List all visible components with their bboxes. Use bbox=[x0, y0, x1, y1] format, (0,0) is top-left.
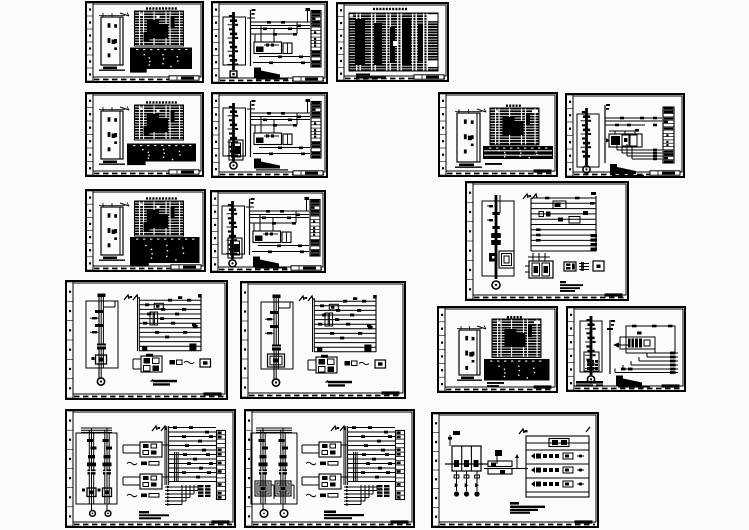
breaker contacts bbox=[103, 439, 113, 466]
table header text bbox=[507, 316, 522, 318]
control cabinet elevation bbox=[457, 326, 486, 376]
meter box bbox=[489, 253, 498, 262]
caption lines bbox=[487, 382, 504, 387]
feeder compartment box bbox=[222, 206, 245, 254]
inner drawing frame bbox=[73, 283, 225, 394]
control wire bbox=[251, 119, 310, 121]
spare contact dashes bbox=[579, 262, 589, 271]
feeder triple line bbox=[89, 428, 93, 510]
bottom dashed margin line bbox=[574, 174, 681, 176]
relay logic box bbox=[253, 231, 281, 243]
wire terminal lugs bbox=[263, 112, 305, 155]
inner drawing frame bbox=[344, 5, 446, 76]
mid vertical bundle bbox=[175, 452, 179, 482]
thermal unit box bbox=[82, 488, 96, 497]
breaker contacts bbox=[279, 439, 289, 466]
control wire bbox=[251, 21, 310, 23]
control cabinet elevation bbox=[99, 13, 129, 66]
control wire bbox=[251, 33, 297, 35]
cabinet base plinth bbox=[455, 164, 482, 168]
left margin fold-mark strip bbox=[439, 308, 445, 391]
control wire bbox=[253, 153, 310, 155]
control wire bbox=[250, 214, 309, 216]
sheet border frame bbox=[566, 94, 684, 177]
table header text bbox=[146, 7, 177, 9]
wire stub marks bbox=[246, 198, 255, 207]
device schedule table bbox=[490, 108, 539, 145]
left margin fold-mark strip bbox=[213, 3, 219, 82]
left margin fold-mark strip bbox=[467, 183, 473, 299]
incoming bus lines bbox=[81, 428, 112, 432]
relay block mass bbox=[628, 339, 650, 348]
sheet 12: feeder control schematic bbox=[241, 282, 405, 398]
inner drawing frame bbox=[93, 95, 201, 171]
meter sub-box on feeder bbox=[229, 140, 243, 160]
junction drop wires bbox=[255, 113, 297, 133]
sheet 6: cabinet + schedule tables bbox=[439, 93, 557, 176]
breaker contacts bbox=[87, 439, 97, 466]
wire stub marks bbox=[247, 100, 256, 109]
wire entry arrows bbox=[523, 194, 537, 199]
feeder compartment box bbox=[580, 321, 602, 372]
bottom dashed margin line bbox=[447, 173, 554, 175]
relay group row 1 bbox=[531, 453, 584, 459]
inner drawing frame bbox=[248, 284, 403, 393]
control wire bbox=[251, 116, 310, 118]
inner meter sub-box bbox=[584, 352, 599, 371]
title block bbox=[171, 265, 201, 269]
device schedule table bbox=[135, 11, 184, 46]
bottom dashed margin line bbox=[94, 173, 200, 175]
caption underline bbox=[611, 172, 635, 174]
contact block striped bbox=[103, 470, 111, 475]
contact block striped bbox=[259, 470, 267, 475]
sheet 16: twin motor starter schematic bbox=[245, 410, 414, 527]
ladder left rail bundle bbox=[344, 426, 348, 485]
meter sub-box on feeder bbox=[228, 238, 242, 258]
arrow contact symbol bbox=[613, 342, 628, 347]
auxiliary contact box bbox=[283, 134, 292, 145]
CT nested rings on feeder bbox=[268, 354, 285, 367]
feeder tap wire bbox=[278, 302, 290, 308]
incoming bus lines bbox=[256, 428, 292, 432]
ladder rungs bbox=[139, 294, 202, 351]
motor circle symbol bbox=[583, 166, 590, 173]
feeder devices bbox=[90, 310, 106, 350]
inner drawing frame bbox=[439, 415, 596, 522]
cable schedule table bbox=[349, 13, 438, 71]
riser wire bbox=[250, 10, 252, 66]
feeder enclosure box bbox=[76, 433, 117, 504]
wire terminal lugs bbox=[263, 21, 305, 64]
notes text block bbox=[510, 502, 545, 514]
left margin fold-mark strip bbox=[567, 95, 573, 176]
bottom dashed margin line bbox=[94, 79, 200, 81]
motor circle symbol bbox=[229, 260, 236, 267]
feeder triple line bbox=[105, 428, 109, 510]
control wire bbox=[251, 124, 297, 126]
title block bbox=[605, 293, 623, 296]
aux boxes bbox=[345, 361, 370, 366]
left margin fold-mark strip bbox=[87, 3, 93, 81]
feeder enclosure box bbox=[251, 433, 297, 504]
control wire bbox=[258, 245, 309, 247]
inner drawing frame bbox=[219, 95, 325, 172]
sheet 5: control schematic with terminal strip bbox=[212, 93, 327, 177]
feeder cap bar bbox=[273, 295, 281, 299]
thermal unit box bbox=[255, 481, 274, 499]
contact block striped bbox=[279, 470, 287, 475]
motor circle bbox=[97, 378, 104, 385]
control wire bbox=[259, 147, 310, 149]
notes text lines bbox=[325, 380, 352, 387]
sheet border frame bbox=[241, 282, 405, 398]
relay coil grid bbox=[133, 354, 162, 372]
transformer bank cluster bbox=[525, 253, 553, 278]
control cabinet elevation bbox=[99, 203, 129, 256]
relay group row 3 bbox=[531, 481, 584, 487]
control wire bbox=[251, 28, 310, 30]
rung lugs bbox=[173, 426, 213, 478]
stepped output wires bbox=[165, 485, 202, 506]
control wire bbox=[252, 251, 309, 253]
inner drawing frame bbox=[73, 412, 233, 522]
inner drawing frame bbox=[218, 193, 323, 267]
breaker contacts bbox=[259, 439, 269, 466]
wire entry arrows bbox=[299, 296, 313, 301]
sheet border frame bbox=[438, 307, 557, 392]
motor circle bbox=[90, 511, 96, 517]
feeder compartment box bbox=[482, 201, 514, 276]
motor circle bbox=[260, 510, 268, 518]
transformer bank (3 cells) bbox=[445, 446, 488, 471]
wiring schedule (filled) bbox=[484, 359, 550, 381]
left margin fold-mark strip bbox=[87, 191, 93, 270]
terminal grid box bbox=[564, 262, 576, 271]
sheet 14: motor control schematic bbox=[567, 307, 685, 391]
bottom dashed margin line bbox=[345, 78, 445, 80]
device schedule table bbox=[135, 201, 184, 236]
motor circle bbox=[272, 379, 279, 386]
wire entry arrows bbox=[124, 295, 138, 300]
relay logic box bbox=[254, 42, 282, 54]
sheet border frame bbox=[337, 3, 448, 81]
notes text lines bbox=[139, 511, 169, 519]
feeder devices bbox=[265, 311, 281, 351]
step wires to bottom right bbox=[615, 349, 678, 374]
indicator box bbox=[200, 359, 211, 367]
aux contact row bbox=[306, 462, 338, 466]
contact matrix block bbox=[377, 485, 390, 497]
notes text bbox=[253, 257, 287, 269]
terminal strip bbox=[663, 107, 674, 163]
inner drawing frame bbox=[252, 412, 412, 522]
control wire bbox=[250, 210, 309, 212]
table header text bbox=[146, 101, 177, 103]
left margin fold-mark strip bbox=[87, 94, 93, 175]
auxiliary contact box bbox=[283, 43, 292, 54]
wire entry arrows bbox=[152, 426, 166, 431]
device schedule table bbox=[492, 319, 541, 358]
control cluster box bbox=[123, 474, 169, 489]
title block bbox=[391, 520, 409, 523]
step-down wires to strip bbox=[617, 138, 662, 160]
riser stub marks bbox=[607, 320, 615, 330]
sheet border frame bbox=[66, 410, 235, 527]
stepped output wires bbox=[344, 485, 381, 506]
wiring schedule (filled) bbox=[127, 144, 196, 166]
sheet border frame bbox=[86, 93, 203, 176]
contact matrix block bbox=[198, 485, 211, 497]
mid vertical bundle bbox=[354, 452, 358, 482]
bottom dashed margin line bbox=[74, 524, 232, 526]
left margin fold-mark strip bbox=[440, 94, 446, 175]
title block bbox=[293, 77, 323, 81]
title block bbox=[662, 384, 680, 387]
relay group row 2 bbox=[531, 467, 584, 473]
table header text bbox=[506, 105, 521, 107]
notes text bbox=[254, 68, 288, 80]
feeder tap wire bbox=[103, 301, 115, 307]
aux contact row bbox=[127, 462, 159, 466]
thermal unit box bbox=[98, 488, 112, 497]
left margin fold-mark strip bbox=[433, 414, 439, 526]
cabinet base plinth bbox=[99, 257, 125, 261]
sheet border frame bbox=[466, 182, 628, 300]
inner drawing frame bbox=[445, 309, 555, 387]
left margin fold-mark strip bbox=[212, 192, 218, 271]
ladder rungs bbox=[531, 198, 596, 251]
secondary drops with fuse marks bbox=[454, 471, 480, 497]
wire stub marks bbox=[247, 9, 256, 18]
feeder compartment box bbox=[577, 114, 599, 167]
bottom dashed margin line bbox=[220, 174, 324, 176]
bottom dashed margin line bbox=[220, 80, 324, 82]
device schedule table bbox=[135, 105, 184, 140]
thermal unit box bbox=[275, 481, 294, 499]
terminal bus strip bbox=[396, 431, 405, 500]
title block bbox=[534, 169, 552, 172]
bottom dashed margin line bbox=[249, 395, 402, 397]
control cluster box bbox=[302, 442, 348, 457]
cabinet base plinth bbox=[99, 67, 125, 71]
left margin fold-mark strip bbox=[67, 282, 73, 398]
title block bbox=[575, 520, 593, 523]
riser wire bbox=[250, 101, 252, 157]
left margin fold-mark strip bbox=[67, 411, 73, 526]
ladder rungs bbox=[348, 428, 395, 482]
control wire bbox=[251, 25, 310, 27]
bottom dashed margin line bbox=[74, 396, 224, 398]
terminal strip bbox=[311, 11, 321, 68]
bottom dashed margin line bbox=[94, 268, 202, 270]
wire terminal lugs bbox=[262, 210, 304, 253]
contactor coil cluster bbox=[606, 131, 642, 147]
notes text bbox=[616, 376, 650, 388]
aux contact row bbox=[306, 494, 338, 498]
auxiliary contact box bbox=[282, 232, 291, 243]
ladder internal rows bbox=[526, 439, 589, 493]
sheet 3: cable schedule table bbox=[337, 3, 448, 82]
ladder rail left bbox=[530, 198, 532, 251]
vertical feeder busbar bbox=[581, 108, 592, 165]
motor circle bbox=[105, 511, 111, 517]
left margin fold-mark strip bbox=[568, 308, 574, 390]
sheet border frame bbox=[439, 93, 557, 176]
title block bbox=[291, 266, 321, 270]
feeder wire bundle bbox=[274, 295, 278, 379]
title block bbox=[293, 171, 323, 175]
sheet border frame bbox=[212, 93, 327, 177]
rung lugs bbox=[352, 426, 392, 478]
ladder rungs bbox=[169, 428, 216, 482]
notes text lines bbox=[324, 511, 364, 520]
busbar components bbox=[487, 205, 501, 245]
incoming marks bbox=[448, 435, 452, 446]
vertical feeder busbar bbox=[228, 12, 239, 70]
legend text lines bbox=[356, 74, 386, 82]
notes text bbox=[254, 159, 288, 171]
feeder wire bundle bbox=[99, 294, 103, 378]
left margin fold-mark strip bbox=[242, 283, 248, 397]
cabinet base plinth bbox=[457, 377, 482, 381]
sheet 8: power cabinet layout + device schedule bbox=[86, 190, 205, 271]
wire entry arrows bbox=[331, 426, 345, 431]
control loop outer box bbox=[626, 326, 675, 353]
striped meter element bbox=[587, 360, 598, 370]
inner drawing frame bbox=[93, 192, 203, 266]
motor circle bbox=[280, 510, 288, 518]
meter box on feeder bbox=[92, 355, 107, 364]
sheet 2: control schematic with terminal strip bbox=[212, 2, 327, 83]
sheet border frame bbox=[212, 2, 327, 83]
sheet 7: motor control schematic bbox=[566, 94, 684, 177]
title block bbox=[169, 170, 199, 174]
left margin fold-mark strip bbox=[246, 411, 252, 526]
sheet border frame bbox=[245, 410, 414, 527]
sheet border frame bbox=[66, 281, 227, 399]
sheet 9: control schematic with terminal strip bbox=[211, 191, 325, 272]
control cluster box bbox=[123, 442, 169, 457]
sheet border frame bbox=[86, 2, 203, 82]
feeder busbar bbox=[495, 195, 500, 279]
left margin fold-mark strip bbox=[213, 94, 219, 176]
notes text lines bbox=[560, 281, 583, 292]
feeder end termination bbox=[230, 71, 237, 77]
sheet border frame bbox=[211, 191, 325, 272]
relay cluster inner box bbox=[620, 337, 655, 349]
sheet 15: twin motor starter schematic bbox=[66, 410, 235, 527]
vertical feeder busbar bbox=[228, 103, 239, 161]
inner drawing frame bbox=[473, 184, 626, 295]
bottom dashed margin line bbox=[474, 297, 625, 299]
feeder compartment box bbox=[86, 301, 118, 368]
sheet border frame bbox=[567, 307, 685, 391]
bottom dashed margin line bbox=[446, 389, 554, 391]
feeder triple line bbox=[281, 428, 285, 510]
ladder rail right bbox=[595, 196, 597, 251]
caption line bbox=[485, 163, 502, 165]
title block bbox=[382, 391, 400, 394]
control wire bbox=[251, 112, 310, 114]
vertical feeder busbar bbox=[227, 201, 238, 259]
ladder left rail bundle bbox=[165, 426, 169, 485]
bottom-left text block bbox=[576, 381, 603, 387]
protection ladder box bbox=[526, 436, 589, 497]
sheet 13: cabinet + schedule tables bbox=[438, 307, 557, 392]
left margin fold-mark strip bbox=[338, 4, 344, 80]
bottom dashed margin line bbox=[575, 388, 682, 390]
control wire bbox=[259, 56, 310, 58]
control wire bbox=[250, 217, 309, 219]
wiring schedule (striped) bbox=[483, 146, 553, 159]
sheet 1: power cabinet layout + device schedule bbox=[86, 2, 203, 82]
sheet title text bbox=[373, 8, 407, 10]
ladder rail left bbox=[138, 297, 140, 351]
cabinet base plinth bbox=[99, 161, 125, 165]
aux boxes bbox=[170, 360, 195, 365]
relay coil grid bbox=[308, 355, 337, 373]
PT cluster bbox=[484, 450, 528, 474]
current transformer nested rings bbox=[499, 251, 514, 268]
right riser with lug bbox=[306, 99, 311, 113]
title block bbox=[414, 75, 444, 79]
title block bbox=[204, 392, 222, 395]
sheet border frame bbox=[432, 413, 598, 527]
feeder triple line bbox=[261, 428, 265, 510]
bottom dashed margin line bbox=[440, 524, 595, 526]
relay components on rungs bbox=[142, 296, 198, 350]
riser wire bbox=[609, 320, 611, 374]
wiring schedule (filled) bbox=[130, 237, 200, 267]
bottom dashed margin line bbox=[253, 524, 411, 526]
terminal strip bbox=[311, 102, 321, 159]
incoming label bbox=[453, 431, 460, 435]
title block bbox=[534, 385, 552, 388]
bottom dashed margin line bbox=[219, 269, 322, 271]
entry arrow marks bbox=[519, 427, 590, 434]
wiring schedule (filled) bbox=[130, 48, 192, 73]
notes text bbox=[610, 164, 644, 176]
sheet 11: feeder control schematic bbox=[66, 281, 227, 399]
relay logic box bbox=[254, 133, 282, 145]
inner drawing frame bbox=[573, 96, 682, 172]
ladder rungs bbox=[314, 295, 377, 352]
control cluster box bbox=[302, 474, 348, 489]
upper control wires bbox=[605, 118, 662, 125]
motor circle bbox=[492, 281, 500, 289]
wire terminal lugs bbox=[615, 117, 657, 132]
control wire bbox=[250, 222, 296, 224]
motor circle symbol bbox=[587, 376, 594, 383]
right riser with lug bbox=[306, 8, 311, 22]
sheet 17: transformer substation schematic bbox=[432, 413, 598, 527]
control cabinet elevation bbox=[455, 109, 486, 163]
title block bbox=[169, 76, 199, 80]
motor circle symbol bbox=[230, 162, 237, 169]
title block bbox=[650, 171, 680, 175]
feeder cap bar bbox=[98, 294, 106, 298]
contact block striped bbox=[88, 470, 96, 475]
title block bbox=[212, 520, 230, 523]
aux contact row bbox=[127, 494, 159, 498]
control wire bbox=[253, 62, 310, 64]
table header text bbox=[146, 197, 177, 199]
terminal bus strip bbox=[217, 431, 226, 500]
terminal strip bbox=[310, 200, 320, 257]
ladder rail left bbox=[313, 298, 315, 352]
inner drawing frame bbox=[574, 309, 683, 386]
